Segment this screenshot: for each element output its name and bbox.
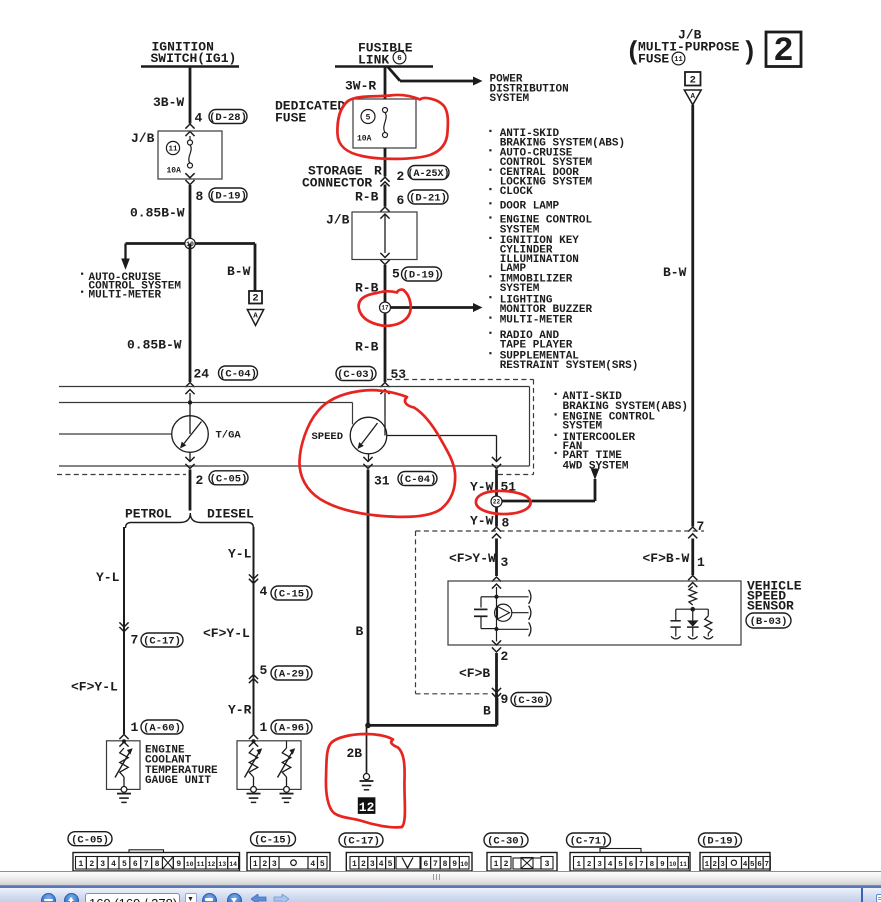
- svg-text:9: 9: [452, 860, 457, 869]
- svg-text:4: 4: [743, 861, 748, 869]
- svg-text:8: 8: [502, 516, 510, 531]
- svg-text:2: 2: [397, 169, 405, 184]
- svg-text:9: 9: [660, 861, 665, 869]
- svg-text:GAUGE UNIT: GAUGE UNIT: [145, 775, 211, 787]
- svg-text:7: 7: [697, 519, 705, 534]
- svg-text:(C-71): (C-71): [570, 836, 608, 848]
- svg-text:10: 10: [186, 861, 194, 868]
- svg-text:2: 2: [196, 473, 204, 488]
- svg-text:1: 1: [576, 861, 581, 869]
- svg-text:5: 5: [122, 860, 127, 869]
- svg-text:3: 3: [597, 861, 602, 869]
- svg-text:DOOR LAMP: DOOR LAMP: [500, 200, 560, 212]
- svg-text:14: 14: [229, 861, 237, 868]
- svg-text:J/B: J/B: [131, 131, 155, 146]
- svg-text:5: 5: [260, 663, 268, 678]
- svg-text:R-B: R-B: [355, 340, 379, 355]
- svg-text:5: 5: [320, 860, 325, 869]
- svg-text:24: 24: [194, 367, 210, 382]
- svg-text:3: 3: [370, 860, 375, 869]
- svg-text:(A-60): (A-60): [143, 723, 181, 735]
- svg-text:1: 1: [697, 555, 705, 570]
- svg-text:10A: 10A: [357, 135, 372, 144]
- svg-text:(C-15): (C-15): [254, 835, 292, 847]
- svg-text:(D-21): (D-21): [409, 193, 447, 205]
- svg-text:2: 2: [712, 861, 717, 869]
- svg-text:(C-03): (C-03): [337, 369, 375, 381]
- svg-text:2: 2: [262, 860, 267, 869]
- svg-text:8: 8: [196, 189, 204, 204]
- svg-text:(C-04): (C-04): [219, 369, 257, 381]
- svg-text:(D-28): (D-28): [209, 112, 247, 124]
- svg-text:10: 10: [460, 861, 468, 868]
- svg-text:4: 4: [111, 860, 116, 869]
- svg-text:(C-15): (C-15): [273, 589, 311, 601]
- svg-text:(A-29): (A-29): [273, 669, 311, 681]
- svg-text:B: B: [483, 704, 491, 719]
- svg-text:3: 3: [501, 555, 509, 570]
- svg-text:31: 31: [374, 474, 390, 489]
- svg-text:5: 5: [750, 861, 755, 869]
- svg-text:(D-19): (D-19): [701, 836, 739, 848]
- svg-text:9: 9: [501, 692, 509, 707]
- svg-text:Y-W: Y-W: [470, 514, 494, 529]
- svg-text:J/B: J/B: [326, 213, 350, 228]
- svg-text:4: 4: [310, 860, 315, 869]
- svg-text:6: 6: [757, 861, 762, 869]
- svg-text:3: 3: [545, 860, 550, 869]
- svg-text:8: 8: [443, 860, 448, 869]
- svg-text:Y-L: Y-L: [228, 547, 252, 562]
- svg-text:7: 7: [131, 633, 139, 648]
- svg-text:FUSE: FUSE: [638, 52, 669, 67]
- svg-text:A: A: [253, 313, 258, 321]
- svg-text:4: 4: [608, 861, 613, 869]
- svg-text:<F>Y-L: <F>Y-L: [203, 626, 250, 641]
- svg-text:(A-96): (A-96): [273, 723, 311, 735]
- svg-text:12: 12: [207, 861, 215, 868]
- svg-text:7: 7: [144, 860, 149, 869]
- svg-text:1: 1: [494, 860, 499, 869]
- svg-text:6: 6: [397, 193, 405, 208]
- svg-text:10: 10: [669, 861, 677, 868]
- svg-text:(C-05): (C-05): [210, 473, 248, 485]
- svg-text:1: 1: [79, 860, 84, 869]
- svg-text:6: 6: [133, 860, 138, 869]
- svg-text:RESTRAINT SYSTEM(SRS): RESTRAINT SYSTEM(SRS): [500, 360, 639, 372]
- svg-text:Y-R: Y-R: [228, 703, 252, 718]
- svg-text:8: 8: [650, 861, 655, 869]
- svg-text:(A-25X): (A-25X): [407, 168, 449, 180]
- svg-text:2: 2: [501, 649, 509, 664]
- svg-text:10A: 10A: [167, 167, 182, 176]
- svg-text:PETROL: PETROL: [125, 507, 172, 522]
- svg-text:R-B: R-B: [355, 190, 379, 205]
- svg-text:6: 6: [629, 861, 634, 869]
- svg-text:3B-W: 3B-W: [153, 95, 184, 110]
- svg-text:3W-R: 3W-R: [345, 79, 376, 94]
- svg-text:2: 2: [361, 860, 366, 869]
- svg-text:3: 3: [272, 860, 277, 869]
- svg-text:22: 22: [493, 499, 501, 506]
- svg-text:0.85B-W: 0.85B-W: [130, 206, 185, 221]
- svg-text:SPEED: SPEED: [312, 431, 344, 443]
- svg-text:SWITCH(IG1): SWITCH(IG1): [151, 51, 237, 66]
- svg-text:11: 11: [680, 861, 688, 868]
- svg-text:MULTI-METER: MULTI-METER: [500, 315, 573, 327]
- svg-text:2: 2: [587, 861, 592, 869]
- svg-text:5: 5: [618, 861, 623, 869]
- svg-text:5: 5: [392, 267, 400, 282]
- svg-text:(C-30): (C-30): [512, 695, 550, 707]
- svg-text:<F>Y-W: <F>Y-W: [449, 551, 496, 566]
- svg-text:2: 2: [690, 74, 696, 86]
- svg-text:SENSOR: SENSOR: [747, 599, 794, 614]
- svg-text:CONNECTOR: CONNECTOR: [302, 176, 372, 191]
- svg-text:<F>Y-L: <F>Y-L: [71, 680, 118, 695]
- svg-text:SYSTEM: SYSTEM: [490, 93, 530, 105]
- svg-text:2: 2: [252, 293, 258, 305]
- svg-text:SYSTEM: SYSTEM: [563, 421, 603, 433]
- svg-text:5: 5: [388, 860, 393, 869]
- svg-text:4: 4: [379, 860, 384, 869]
- svg-text:11: 11: [674, 56, 682, 64]
- svg-text:<F>B: <F>B: [459, 666, 490, 681]
- svg-text:A: A: [690, 93, 695, 101]
- svg-text:(C-17): (C-17): [342, 836, 380, 848]
- svg-text:B-W: B-W: [663, 265, 687, 280]
- svg-text:2: 2: [773, 33, 793, 71]
- svg-text:5: 5: [366, 113, 371, 122]
- svg-text:<F>B-W: <F>B-W: [643, 551, 690, 566]
- svg-text:6: 6: [423, 860, 428, 869]
- svg-text:Y-L: Y-L: [96, 570, 120, 585]
- svg-text:FUSE: FUSE: [275, 111, 306, 126]
- svg-text:7: 7: [764, 861, 769, 869]
- svg-text:7: 7: [433, 860, 438, 869]
- svg-text:6: 6: [397, 55, 402, 63]
- svg-text:4: 4: [195, 110, 203, 125]
- svg-text:MULTI-METER: MULTI-METER: [89, 290, 162, 302]
- svg-text:0.85B-W: 0.85B-W: [127, 338, 182, 353]
- svg-text:(C-05): (C-05): [71, 834, 109, 846]
- svg-text:R: R: [374, 164, 382, 179]
- svg-text:B: B: [356, 624, 364, 639]
- svg-text:1: 1: [253, 860, 258, 869]
- svg-text:(D-19): (D-19): [209, 191, 247, 203]
- svg-text:B-W: B-W: [227, 264, 251, 279]
- svg-text:1: 1: [260, 720, 268, 735]
- svg-text:(B-03): (B-03): [750, 616, 788, 628]
- svg-text:(C-30): (C-30): [487, 836, 525, 848]
- svg-text:11: 11: [197, 861, 205, 868]
- svg-text:1: 1: [352, 860, 357, 869]
- svg-text:2: 2: [504, 860, 509, 869]
- svg-text:17: 17: [381, 305, 389, 312]
- svg-text:9: 9: [176, 860, 181, 869]
- svg-text:2: 2: [89, 860, 94, 869]
- svg-text:7: 7: [639, 861, 644, 869]
- svg-text:T/GA: T/GA: [216, 429, 242, 441]
- svg-text:DIESEL: DIESEL: [207, 507, 254, 522]
- svg-text:8: 8: [155, 860, 160, 869]
- svg-text:1: 1: [131, 720, 139, 735]
- svg-text:(C-04): (C-04): [399, 474, 437, 486]
- svg-text:): ): [742, 37, 758, 67]
- svg-text:13: 13: [218, 861, 226, 868]
- svg-text:12: 12: [359, 800, 375, 815]
- svg-text:3: 3: [100, 860, 105, 869]
- svg-text:(C-17): (C-17): [143, 636, 181, 648]
- svg-text:CLOCK: CLOCK: [500, 186, 533, 198]
- svg-text:3: 3: [720, 861, 725, 869]
- svg-text:11: 11: [168, 146, 178, 154]
- svg-text:(D-19): (D-19): [403, 270, 441, 282]
- svg-text:2B: 2B: [347, 746, 363, 761]
- svg-text:SYSTEM: SYSTEM: [500, 283, 540, 295]
- svg-text:1: 1: [705, 861, 710, 869]
- svg-text:4: 4: [260, 584, 268, 599]
